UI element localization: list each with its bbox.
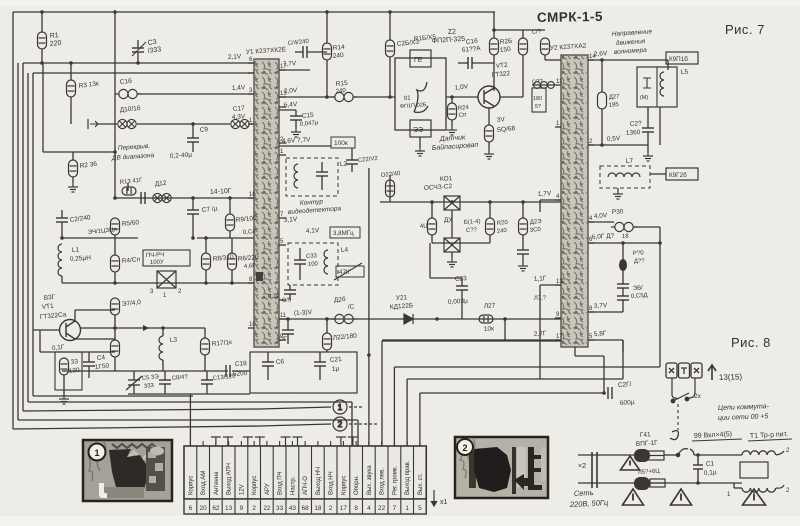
wire C16 dn — [267, 366, 269, 380]
wire to T1 bottom — [698, 482, 742, 484]
wire IC U2 right pin 6 — [588, 242, 594, 244]
photo 1 marker circle 1 — [89, 444, 106, 461]
dashed link switch — [677, 404, 679, 430]
dashed box L2 contour — [286, 158, 338, 196]
photo 1 oval light top right — [150, 447, 164, 456]
wire C13 up — [206, 371, 208, 380]
junction y319 x437 — [435, 317, 439, 321]
wire sw to T1 — [694, 454, 742, 456]
wire IC U1 right pin 13 — [279, 96, 286, 98]
wire IC U2 right pin 4 — [588, 221, 594, 223]
wire C13 dn — [206, 384, 208, 394]
wire IC2 y243 — [588, 242, 660, 244]
junction y319 x505 — [503, 317, 507, 321]
resistor R14 — [323, 43, 332, 60]
ground Z2 — [415, 147, 425, 156]
wire R17 dn — [204, 355, 206, 371]
fuse FU2 symbol — [650, 479, 665, 487]
wire IC U2 left pin 13 — [555, 284, 561, 286]
inductor L2 — [294, 164, 298, 188]
wire left bus v2 — [17, 63, 19, 420]
varicap pair VD2 — [231, 119, 249, 128]
wire bus3 drop — [357, 420, 359, 446]
arrow in symbol — [90, 121, 98, 127]
wire C26 dn — [601, 109, 603, 145]
wire x430 up — [429, 243, 431, 278]
junction y238 x206 — [204, 236, 208, 240]
capacitor C2G 600u — [608, 387, 612, 399]
resistor R27h — [479, 315, 493, 323]
wire C9 up — [192, 124, 194, 138]
photo 2 dark blob — [474, 447, 511, 492]
photo insert 2 frame — [455, 437, 548, 498]
varicap pair VD1 — [118, 119, 136, 128]
capacitor C1G — [282, 330, 294, 334]
arrow to 13(15) — [708, 365, 716, 380]
wire C6 right — [472, 62, 494, 64]
wire IC U2 right pin 5 — [588, 339, 594, 341]
wire R1 bottom — [41, 49, 43, 63]
wire R2 top — [72, 152, 74, 160]
wire x390 dn — [389, 57, 391, 97]
resistor R5 — [111, 218, 120, 235]
wire IC2 pin 1,1V — [540, 284, 561, 286]
wire y227 to x660 — [634, 226, 660, 228]
wire y243 det — [432, 242, 490, 244]
resistor R25 — [386, 40, 395, 57]
photo 1 texture left — [88, 441, 106, 481]
wire staircase y379 — [407, 378, 623, 380]
capacitor C11 — [141, 192, 145, 204]
wire IC2 pin 2,7V — [382, 339, 561, 341]
wire IC U1 left pin 3 — [248, 93, 254, 95]
capacitor C9 — [187, 138, 199, 142]
diode in L5 box — [643, 78, 651, 88]
wire IC U1 right pin 107 — [279, 106, 286, 108]
wire R8 up — [205, 238, 207, 253]
wire x390 top — [389, 12, 391, 40]
wire y124 mid — [137, 123, 230, 125]
resistor R26 — [490, 38, 499, 55]
wire staircase drop x394 — [393, 367, 395, 446]
inductor L1 — [58, 244, 62, 276]
wire staircase drop x407 — [406, 379, 408, 446]
wire main AF line y319 — [279, 318, 561, 320]
wire y371b — [232, 370, 250, 372]
transistor VT1 body — [60, 320, 81, 341]
wire IC U2 right pin 14 — [588, 59, 594, 61]
boxed label K9Gb — [666, 168, 698, 180]
wire IC U1 left pin 6 — [248, 62, 254, 64]
trimmer arrow C3 — [132, 42, 146, 56]
wire long vertical x370 — [368, 168, 370, 446]
wire VT2 to x523 — [500, 96, 523, 98]
wire left bus v5 — [32, 73, 34, 396]
resistor R3 — [67, 80, 76, 97]
wire IC2 pin top — [545, 59, 561, 61]
box stereo decoder — [250, 352, 357, 393]
inductor L4 — [324, 250, 328, 274]
wire bottom bus 2 to output 1 — [23, 407, 331, 411]
junction C1G — [286, 317, 290, 321]
capacitor C23 — [456, 286, 468, 290]
wire C15a drop — [295, 110, 297, 116]
junction x660 y243 — [658, 241, 662, 245]
IC U2 K237XA2 body — [561, 55, 588, 347]
wire staircase y393 — [420, 392, 604, 394]
wire bus AGC y63 — [23, 62, 254, 64]
wire left bus v3 — [22, 63, 24, 411]
junction y145 x602 — [600, 143, 604, 147]
junction y283 x206 — [204, 281, 208, 285]
wire conn drop x505 — [504, 319, 506, 341]
underline V4 — [692, 439, 742, 441]
wire IC U1 left pin 73 — [248, 72, 254, 74]
wire R20 dn — [489, 235, 491, 243]
transformer T1 secondary — [742, 488, 776, 492]
dashed box L4 contour — [288, 243, 338, 285]
ferrite beads — [534, 82, 555, 89]
photo 2 left dark bar — [469, 451, 476, 488]
wire x327 top — [326, 12, 328, 43]
wire IC U1 right pin 9 — [279, 339, 286, 341]
wire VT1 coll up — [74, 310, 76, 321]
wire IC U1 left pin 1 — [248, 123, 254, 125]
wire C30 dn — [622, 271, 624, 284]
coupling pair C24 — [331, 314, 357, 323]
wire x540 drop2 — [539, 285, 541, 379]
wire IC U1 right pin 7 — [279, 217, 286, 219]
wire C23 top link — [430, 277, 462, 279]
wire Z2 out — [446, 96, 478, 98]
ground C29 — [643, 152, 653, 161]
fuse FU1 symbol — [648, 451, 664, 460]
connector X1 pin name texts — [188, 460, 424, 495]
wire x623 dn — [622, 340, 624, 352]
transformer T1 primary — [742, 451, 776, 455]
junction y198 x193 — [191, 196, 195, 200]
wire mains top — [578, 454, 634, 456]
wire x668 drop — [667, 60, 669, 70]
capacitor C19 — [284, 290, 296, 294]
trimmer capacitor C15 — [126, 371, 142, 394]
boxed label K9P1b — [666, 52, 698, 64]
ground R24 — [447, 126, 457, 135]
wire staircase y367 — [394, 366, 660, 368]
connector X1 cell separators — [197, 446, 414, 514]
wire C7 dn — [192, 214, 194, 238]
wire C15a dn — [295, 120, 297, 128]
wire x462 to y319 — [461, 300, 463, 319]
wire x43 drop — [42, 63, 44, 152]
wire R33 dn — [63, 375, 65, 395]
wire IC U2 left pin 4 — [555, 199, 561, 201]
resistor R22v — [323, 333, 332, 350]
wire L4c dn — [299, 264, 301, 280]
wire C19 dn — [289, 294, 291, 300]
wire C7 up — [192, 198, 194, 210]
detector X box bottom — [444, 238, 460, 252]
wire C25 dn — [522, 254, 524, 262]
wire R24 up — [451, 97, 453, 103]
capacitor C21 — [314, 362, 326, 366]
wire IC U1 right pin 11 — [279, 318, 286, 320]
wire x660 long — [659, 227, 661, 360]
inductor L7 — [608, 173, 640, 177]
wire IC U2 left pin 17 — [555, 339, 561, 341]
wire x327 mid — [326, 60, 328, 97]
photo 2 right light — [541, 447, 546, 481]
ground below R2 — [68, 183, 78, 192]
wire VT2 emit — [488, 108, 490, 125]
wire L7 gnd — [617, 188, 619, 190]
IC U1 pin1 mark — [256, 272, 263, 281]
capacitor C3 trim — [132, 48, 144, 52]
wire L3 dn — [162, 360, 164, 371]
junction R19 top — [430, 200, 434, 204]
wire C1G dn — [287, 334, 289, 344]
filter Z2 top electrode box — [410, 50, 431, 67]
junction top bus x390 — [388, 10, 392, 14]
junction x115 y152 — [113, 150, 117, 154]
junction C3 bus — [136, 61, 140, 65]
wire y145 out — [588, 144, 648, 146]
node circled 2 — [333, 417, 377, 431]
wire VT2 coll — [493, 55, 495, 91]
box L5 divider — [656, 67, 658, 107]
wire x540 drop — [539, 200, 541, 212]
filter Z2 box — [395, 58, 446, 130]
resistor R17 — [201, 338, 210, 355]
photo 2 thin bar — [512, 447, 516, 494]
junction y283 x232 — [230, 281, 234, 285]
junction y238 x62 — [60, 236, 64, 240]
junction R24 top — [450, 95, 454, 99]
warning triangle 1 — [621, 456, 640, 470]
wire pin 6,4V — [279, 109, 296, 111]
boxed value 100k — [331, 137, 355, 148]
wire R22 dn — [326, 350, 328, 352]
wire L3 up — [162, 328, 164, 336]
junction x602 y60 — [600, 58, 604, 62]
diode VD21 — [404, 314, 413, 324]
wire IC1 pin13 out — [279, 96, 335, 98]
switch link curl — [670, 431, 678, 440]
capacitor C13 — [201, 380, 213, 384]
connector X1 body — [184, 446, 426, 499]
junction x115 y198 — [113, 196, 117, 200]
photo 2 marker circle 2 — [457, 439, 473, 455]
capacitor C18 — [226, 365, 230, 377]
wire VT1 emit — [75, 338, 115, 340]
wire IC U1 right pin 300 — [279, 299, 286, 301]
wire C21 dn — [319, 366, 321, 380]
wire IC2 out y60 — [588, 59, 668, 61]
wire R13 drop — [127, 183, 129, 191]
wire IC U2 left pin 9 — [555, 317, 561, 319]
wire R19 dn — [431, 235, 433, 243]
ground left cluster — [59, 395, 69, 404]
wire Z2 bottom to ground — [419, 137, 421, 147]
wire C14 right — [307, 51, 327, 53]
wire y371 — [62, 370, 228, 372]
resistor R31 — [541, 38, 550, 55]
wire C14 left — [295, 51, 303, 53]
wire R3 top — [70, 63, 72, 80]
wire R11 dn — [114, 357, 116, 371]
wire R28 dn — [488, 142, 490, 150]
wire C16 up — [267, 352, 269, 362]
wire x523 to y97 — [522, 85, 524, 97]
arrow on wire y328 — [143, 325, 149, 331]
resistor R2 — [69, 160, 78, 177]
boxed value 38MHz — [330, 227, 360, 238]
wire x494 top — [493, 12, 495, 38]
wire secondary left — [734, 487, 742, 489]
ground detector — [447, 258, 457, 267]
IC U1 K237XK2 body — [254, 59, 279, 347]
junction y328 x163 — [161, 326, 165, 330]
wire R7 dn — [114, 315, 116, 340]
fuse holder blob 2 — [634, 477, 650, 490]
wire beads y85 — [532, 84, 555, 86]
wire R6 up — [231, 238, 233, 253]
photo 2 bottom arrow blob — [514, 474, 530, 490]
wire y356 to x604 — [575, 355, 604, 357]
transistor VT2 body — [478, 86, 500, 108]
junction det top — [450, 200, 454, 204]
tuning cap block C1b — [115, 89, 141, 98]
wire IC U2 right pin 8 — [588, 311, 594, 313]
resistor R13 — [122, 187, 136, 195]
capacitor C8 — [159, 380, 171, 384]
wire R1 top — [41, 12, 43, 32]
ground C15a — [291, 128, 301, 137]
mains plug XS1 — [666, 363, 702, 378]
arrow through korrektor — [334, 263, 362, 280]
capacitor C25 — [517, 250, 529, 254]
wire C20 up — [88, 352, 90, 362]
photo insert 1 frame — [83, 440, 172, 501]
connector X1 designator arrow — [431, 490, 437, 506]
wire bottom bus 1 — [28, 401, 352, 403]
wire x40 drop — [39, 330, 41, 352]
mixer U mixer cell — [157, 271, 176, 288]
wire L1 dn — [61, 276, 63, 283]
terminal tower at x215.9 — [211, 437, 233, 446]
polar capacitor C30 — [619, 259, 627, 271]
wire C6 left — [458, 62, 468, 64]
junction R23 top — [521, 200, 525, 204]
capacitor C7 — [187, 210, 199, 214]
capacitor C in L4 box — [294, 260, 306, 264]
wire C1G up — [287, 319, 289, 330]
junction C1 top — [696, 453, 700, 457]
wire fuse to sw — [664, 454, 678, 456]
detector X box top — [444, 196, 460, 210]
wire mains bottom — [578, 482, 634, 484]
connector X1 pin numbers — [189, 505, 423, 512]
wire VT1 coll h — [75, 309, 115, 311]
resistor R28 — [485, 125, 494, 142]
resistor R33 — [60, 358, 69, 375]
wire y394 — [128, 393, 250, 395]
resistor R19 — [428, 218, 437, 235]
resistor R8 — [202, 253, 211, 270]
capacitor C14 — [303, 46, 307, 58]
box small x537 — [532, 88, 546, 112]
wire VT1 base — [33, 329, 60, 331]
wire R6 dn — [231, 270, 233, 283]
wire C3 up — [137, 40, 139, 48]
transformer T1 screen box — [740, 462, 768, 478]
wire y328 main — [80, 327, 205, 329]
resistor R1 — [38, 32, 47, 49]
wire IC2 bottom pin drop — [574, 347, 576, 356]
photo 1 right strip light patches — [148, 452, 163, 483]
wire R23 up — [522, 202, 524, 218]
wire L2c dn — [321, 176, 323, 190]
wire x352 drop — [351, 148, 353, 160]
junction x623 y243 — [621, 241, 625, 245]
wire varicap row y198 — [115, 197, 254, 199]
wire L2c up — [321, 162, 323, 172]
filter Z2 bottom electrode box — [410, 120, 431, 137]
capacitor C1 mains — [693, 455, 703, 483]
wire C8 up — [164, 371, 166, 380]
wire to Z2 — [353, 96, 395, 98]
wire R9 up — [229, 198, 231, 214]
photo 1 dark blob — [109, 449, 150, 495]
box R33 — [55, 352, 82, 390]
varicap pair VD3 R12 — [153, 193, 171, 202]
resistor R21 small — [386, 180, 395, 197]
junction x327 y97 — [325, 95, 329, 99]
junction y283 x115 — [113, 281, 117, 285]
junction top bus x327 — [325, 10, 329, 14]
wire C29 up — [647, 107, 649, 128]
switch SA1 contacts — [676, 449, 694, 457]
wire R24 dn — [451, 120, 453, 126]
dashed box L7 — [600, 166, 650, 188]
resistor R29 — [519, 38, 528, 55]
wire bottom bus 4 to output 2 — [13, 424, 331, 429]
resistor R7 — [111, 298, 120, 315]
wire staircase drop x382 — [381, 341, 383, 446]
junction x390 y97 — [388, 95, 392, 99]
junction R3 top — [69, 61, 73, 65]
wire bus y73 — [33, 72, 254, 74]
wire x390 det drop — [389, 175, 391, 202]
wire C23 dn — [461, 290, 463, 300]
capacitor C6 — [468, 57, 472, 69]
wire left bus v4 — [27, 73, 29, 402]
junction R1 bus — [40, 61, 44, 65]
wire C29 dn — [647, 132, 649, 152]
junction R9 top — [228, 196, 232, 200]
wire R4 dn — [114, 272, 116, 283]
electrolytic C26 — [598, 92, 607, 109]
node circled 1 — [333, 400, 364, 414]
connector X1 number strip — [184, 499, 426, 514]
junction x494 y30 — [492, 28, 496, 32]
wire IC U2 left pin 1 — [555, 126, 561, 128]
junction x370 y355 — [367, 353, 371, 357]
wire cap x602 — [601, 60, 603, 92]
junction C1 bottom — [696, 481, 700, 485]
wire staircase drop x420 — [419, 393, 421, 446]
wire R8 dn — [205, 270, 207, 283]
